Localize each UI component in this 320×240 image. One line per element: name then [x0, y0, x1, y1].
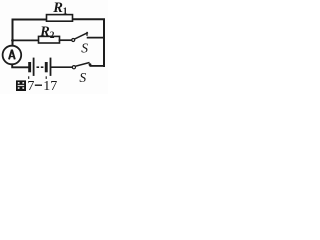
svg-text:7: 7	[27, 79, 34, 94]
caption figure label block 图	[16, 80, 26, 91]
wire middle branch left segment	[13, 39, 39, 41]
wire top right of R1 to top-right corner and right vertical wire	[73, 19, 105, 66]
switch S (middle branch) blade end tick	[86, 33, 88, 36]
switch S (battery branch) blade	[76, 63, 89, 66]
battery cell 1 short plate (negative)	[28, 62, 31, 72]
wire ammeter bottom to bottom-left corner	[12, 64, 28, 67]
switch S (battery branch) pivot	[72, 66, 75, 69]
bottom switch fixed contact dot	[89, 63, 92, 66]
battery cell 2 short plate (negative)	[45, 62, 48, 72]
wire bottom switch contact to bottom-right corner	[90, 65, 104, 67]
svg-text:2: 2	[50, 31, 55, 41]
svg-text:S: S	[79, 70, 86, 85]
caption dash	[35, 85, 42, 86]
resistor R2	[39, 36, 60, 43]
wire switch S to right wire	[88, 37, 104, 39]
battery cell 1 long plate (positive)	[33, 58, 35, 76]
wire top-left corner and left vertical wire	[13, 20, 47, 46]
ammeter A body	[3, 46, 22, 65]
print speckle above caption digits	[28, 76, 29, 79]
battery cell 2 long plate (positive)	[50, 58, 52, 76]
wire battery to bottom switch	[51, 66, 72, 68]
svg-text:R: R	[52, 0, 63, 16]
node junction at left wire and middle branch	[11, 39, 14, 42]
svg-text:S: S	[81, 41, 88, 56]
switch S (middle branch) pivot	[72, 39, 75, 42]
resistor R1	[47, 15, 73, 22]
ammeter letter A	[9, 50, 15, 60]
svg-text:1: 1	[63, 7, 68, 17]
svg-text:17: 17	[43, 79, 57, 94]
switch S (middle branch) blade	[75, 33, 88, 39]
svg-text:R: R	[39, 24, 50, 40]
wire dashed link between cells	[37, 66, 40, 68]
wire R2 to switch S pivot	[60, 39, 72, 41]
